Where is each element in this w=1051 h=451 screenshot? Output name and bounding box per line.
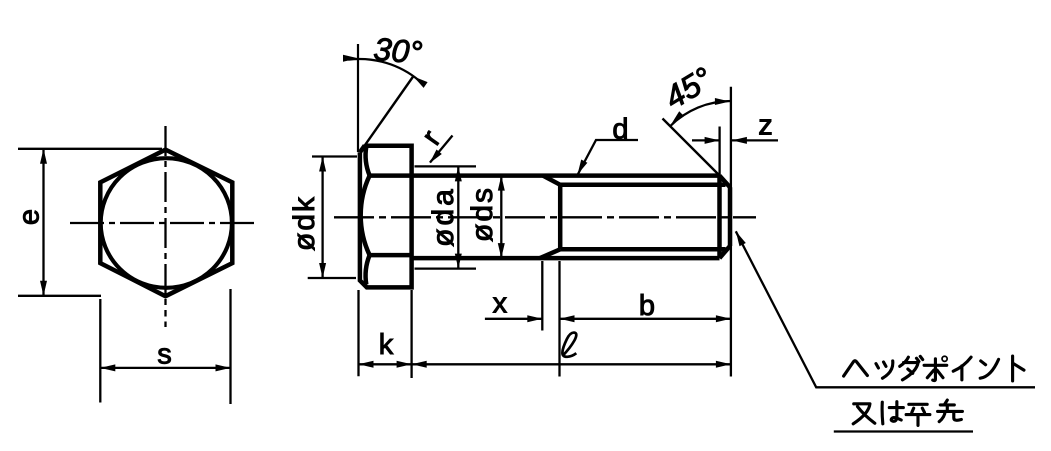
dimension line s (100, 367, 230, 369)
thread minor line bottom (560, 247, 725, 252)
head middle facet arc (361, 176, 370, 256)
arrow x (527, 315, 542, 322)
hiragana ha (882, 402, 903, 424)
svg-text:s: s (157, 339, 172, 371)
svg-text:øda: øda (427, 186, 460, 247)
30 deg vertical reference line (357, 44, 359, 152)
arrow ds top (498, 176, 505, 191)
head outline (360, 146, 412, 288)
k extension left (357, 290, 359, 376)
arrow k left (359, 361, 374, 368)
end chamfer bottom diagonal (720, 246, 731, 258)
45 deg construction diagonal (663, 119, 720, 176)
d leader (578, 140, 638, 174)
extension line s left (99, 299, 101, 403)
thread runout diagonal bottom (540, 249, 560, 258)
full thread boundary line (558, 185, 563, 250)
svg-text:k: k (379, 329, 394, 361)
bolt centerline (334, 216, 756, 218)
header point leader line (736, 231, 1035, 387)
thread runout diagonal top (543, 176, 560, 185)
kanji mata (853, 404, 875, 424)
thread minor line top (560, 183, 725, 188)
katakana po (924, 356, 947, 380)
katakana he (844, 361, 868, 376)
dk dimension line (321, 157, 323, 279)
da extension bottom (415, 267, 477, 269)
arrow b right (716, 315, 731, 322)
l dimension line (412, 363, 731, 365)
head chamfer top-left (thick part of 30deg line) (360, 145, 365, 152)
b dimension line (560, 318, 731, 320)
head top facet arc (366, 147, 370, 176)
k dimension line (359, 363, 412, 365)
head facet line lower (370, 253, 412, 258)
end chamfer top diagonal (720, 176, 731, 188)
svg-text:30°: 30° (372, 31, 424, 71)
arrow 30 left (343, 55, 358, 62)
svg-text:d: d (612, 113, 628, 145)
x dimension line (485, 318, 542, 320)
hexagon outline (head across flats) (100, 150, 232, 297)
katakana n (980, 359, 998, 378)
r leader line (430, 136, 453, 163)
katakana da (900, 356, 923, 379)
arrow dk top (319, 157, 326, 172)
arrow r (430, 150, 442, 164)
arrow 45 left (671, 111, 684, 124)
z extension right (end face), long (730, 87, 732, 377)
ds dimension line (500, 176, 502, 259)
z extension left (chamfer start) (718, 127, 720, 177)
arrow ds bottom (498, 243, 505, 258)
thread boundary extension line (558, 261, 560, 377)
centerline dot below (164, 322, 166, 328)
30 deg arc (348, 59, 419, 81)
arrow z right (732, 137, 747, 144)
30 deg chamfer construction line (360, 76, 414, 152)
arrow 30 right (413, 76, 427, 88)
arrow 45 right (715, 98, 730, 105)
chamfer start vertical at bolt end (717, 176, 722, 259)
kanji saki (938, 400, 963, 422)
da dimension line (457, 166, 459, 268)
dk extension bottom (308, 277, 356, 279)
da extension top (415, 165, 477, 167)
label script ell (562, 333, 576, 357)
vertical centerline (164, 126, 166, 317)
dk extension top (312, 155, 357, 157)
shank top line (thread major) (412, 173, 720, 178)
svg-text:x: x (493, 288, 508, 320)
head bottom facet arc (366, 255, 370, 284)
arrow z left (705, 137, 720, 144)
underline of second japanese line (834, 430, 973, 432)
arrow da top (455, 166, 462, 181)
dimension line e (42, 149, 44, 296)
45 deg arc (670, 101, 731, 126)
head facet line upper (370, 173, 412, 178)
horizontal centerline (70, 222, 259, 224)
arrow b left (560, 315, 575, 322)
arrow s right (216, 364, 231, 371)
x extension line (runout start) (541, 261, 543, 331)
inscribed chamfer circle (101, 158, 232, 288)
z dimension line right (732, 139, 778, 141)
arrow d (578, 160, 588, 175)
arrow k right (397, 361, 412, 368)
svg-text:e: e (13, 209, 45, 225)
svg-text:ødk: ødk (288, 195, 321, 251)
arrow da bottom (455, 254, 462, 269)
arrow e bottom (40, 281, 47, 296)
arrow l right (716, 361, 731, 368)
extension line bottom (e) (18, 295, 101, 297)
svg-text:øds: øds (466, 186, 499, 242)
katakana to (1013, 356, 1024, 381)
end face (728, 187, 733, 246)
svg-text:z: z (758, 110, 773, 142)
katakana small tsu (876, 361, 893, 378)
katakana i (953, 357, 971, 380)
arrow header point leader (736, 231, 746, 246)
arrow l left (412, 361, 427, 368)
arrow s left (100, 364, 115, 371)
arrow dk bottom (319, 263, 326, 278)
extension line top (e) (18, 148, 162, 150)
z dimension line left (692, 139, 720, 141)
k extension right (410, 290, 412, 378)
kanji hira (906, 404, 930, 425)
shank bottom line (thread major) (412, 256, 720, 261)
arrow e top (40, 149, 47, 164)
svg-text:b: b (639, 290, 655, 322)
extension line s right (229, 289, 231, 404)
